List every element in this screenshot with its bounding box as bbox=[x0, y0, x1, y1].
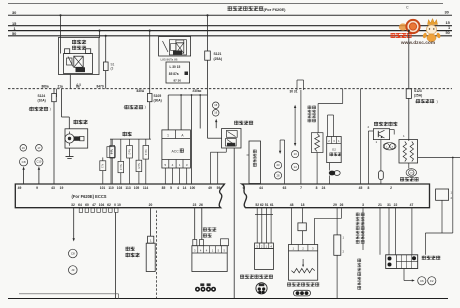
wire 30 31 bridge bbox=[296, 80, 298, 90]
svg-text:O2: O2 bbox=[332, 148, 336, 152]
svg-text:63: 63 bbox=[283, 186, 287, 190]
wire amp out through resistor bbox=[380, 140, 382, 171]
wire dashed boundary bbox=[156, 211, 158, 299]
svg-text:L 30 15: L 30 15 bbox=[170, 65, 181, 69]
svg-text:(10A): (10A) bbox=[38, 99, 46, 103]
wire pin 48 to TPS bbox=[291, 208, 293, 245]
svg-text:L85 86Ta 86: L85 86Ta 86 bbox=[161, 58, 178, 62]
svg-text:5: 5 bbox=[170, 186, 172, 190]
relay main lower box bbox=[166, 62, 190, 83]
svg-text:18: 18 bbox=[301, 203, 305, 207]
svg-text:8479: 8479 bbox=[97, 85, 104, 89]
fuse S122 bbox=[104, 62, 109, 71]
component box E1 bbox=[107, 147, 115, 158]
wire 45 drop bbox=[360, 89, 362, 184]
connector 23 bbox=[274, 162, 281, 169]
wire pin 10 to ground bus bbox=[115, 212, 117, 298]
relay fuel-pump outer box bbox=[59, 38, 100, 75]
wire arrow to connector refs bbox=[403, 269, 405, 281]
svg-text:14: 14 bbox=[183, 186, 187, 190]
wire arrow to C8 bbox=[23, 170, 25, 185]
wire ground branch bbox=[19, 293, 119, 295]
wire fuse S121 down bbox=[207, 60, 209, 95]
connector 14 bbox=[292, 163, 299, 170]
wire 1-bus drop bbox=[99, 31, 101, 38]
resistor ballast bbox=[379, 171, 384, 180]
wire relay-2 bottom bar bbox=[225, 148, 227, 152]
svg-text:10: 10 bbox=[117, 203, 121, 207]
TPS connector bbox=[294, 290, 311, 296]
label vertical heater text bbox=[308, 106, 312, 123]
wire pump ground bbox=[69, 148, 71, 156]
wire o2 to ECU pin 24 bbox=[329, 163, 331, 171]
wire relay-2 supply corner bbox=[207, 95, 209, 138]
ECU right segment bbox=[242, 184, 430, 208]
svg-text:No.4: No.4 bbox=[119, 164, 123, 170]
injector No.3 bbox=[143, 146, 149, 160]
svg-text:50: 50 bbox=[446, 30, 450, 35]
svg-text:C8: C8 bbox=[71, 252, 75, 256]
label 点火放大器 bbox=[374, 122, 397, 126]
svg-text:F2: F2 bbox=[430, 279, 434, 283]
svg-text:28: 28 bbox=[277, 173, 280, 177]
svg-text:45: 45 bbox=[359, 186, 363, 190]
svg-text:C6: C6 bbox=[420, 279, 424, 283]
wire bus 1 bbox=[8, 30, 452, 32]
relay coil bbox=[74, 56, 83, 67]
svg-text:52: 52 bbox=[255, 203, 259, 207]
svg-text:104: 104 bbox=[99, 203, 105, 207]
svg-text:62: 62 bbox=[260, 203, 264, 207]
svg-text:30 31: 30 31 bbox=[290, 89, 298, 93]
wires pins 52 62 51 61 down bbox=[256, 208, 258, 243]
svg-text:(For F620E) ECCS: (For F620E) ECCS bbox=[72, 194, 107, 199]
svg-text:13: 13 bbox=[294, 152, 297, 156]
svg-text:22: 22 bbox=[394, 203, 398, 207]
svg-text:100: 100 bbox=[190, 186, 196, 190]
wire injector feed bus bbox=[110, 138, 151, 140]
svg-text:8a: 8a bbox=[76, 85, 80, 89]
connector plug cluster bbox=[200, 283, 204, 286]
svg-text:C: C bbox=[406, 6, 409, 10]
ECU left segment bbox=[15, 184, 224, 208]
svg-text:31: 31 bbox=[387, 203, 391, 207]
injector No.4 bbox=[118, 161, 124, 172]
svg-text:6: 6 bbox=[243, 186, 245, 190]
label 燃油泵 bbox=[74, 120, 88, 124]
wire bus line top border bbox=[8, 3, 443, 5]
fuse S123 bbox=[406, 89, 411, 99]
wire 31 to ECU pin 7 bbox=[300, 90, 302, 184]
fuse S105 bbox=[147, 94, 152, 102]
svg-text:S123: S123 bbox=[414, 89, 422, 93]
svg-text:3: 3 bbox=[362, 203, 364, 207]
label coolant sensor vertical bbox=[356, 213, 360, 244]
wire bus 15 bbox=[8, 25, 452, 27]
svg-text:〉: 〉 bbox=[437, 99, 441, 104]
svg-text:N:1: N:1 bbox=[101, 164, 104, 168]
wire pin 49 up bbox=[210, 152, 212, 184]
knock sensor box bbox=[148, 236, 154, 243]
svg-text:49: 49 bbox=[208, 186, 212, 190]
svg-text:2: 2 bbox=[390, 186, 392, 190]
wire pin 20 to knock sensor bbox=[149, 208, 151, 237]
svg-text:S121: S121 bbox=[214, 52, 222, 56]
injector No.1 bbox=[110, 146, 115, 159]
wire 1-bus to fuse S105 bbox=[149, 31, 151, 94]
svg-text:17: 17 bbox=[37, 146, 40, 150]
label 诊断插头 bbox=[422, 256, 441, 260]
injector No.5 bbox=[136, 160, 142, 171]
svg-text:830A: 830A bbox=[137, 89, 145, 93]
svg-text:30: 30 bbox=[445, 10, 449, 15]
label 燃油泵继电器 bbox=[72, 40, 86, 44]
label 喷嘴 bbox=[123, 132, 132, 136]
relay main-2 box bbox=[222, 129, 241, 149]
relay main outer box bbox=[159, 37, 191, 57]
svg-text:51: 51 bbox=[265, 203, 269, 207]
label 节气门位传感器 bbox=[287, 282, 319, 286]
label 爆燃传感器 bbox=[126, 247, 135, 251]
svg-text:S105: S105 bbox=[154, 94, 162, 98]
wire 30-bus to relay bbox=[60, 15, 62, 53]
connector C6 bbox=[418, 277, 426, 285]
wire fuse S123 to coil bbox=[408, 98, 410, 139]
wire 50-bus to fuse S122 bbox=[105, 36, 107, 62]
label relay vertical 2 bbox=[357, 259, 361, 290]
svg-text:14: 14 bbox=[294, 165, 297, 169]
svg-text:(30A): (30A) bbox=[154, 99, 162, 103]
svg-text:64: 64 bbox=[78, 203, 82, 207]
wire fuse S105 to injector bus bbox=[149, 102, 151, 139]
wire bus 50 bbox=[8, 35, 452, 37]
svg-text:0: 0 bbox=[114, 203, 116, 207]
svg-text:110: 110 bbox=[108, 186, 113, 190]
svg-text:26: 26 bbox=[340, 203, 344, 207]
wire pin 18 via resistor box bbox=[302, 208, 304, 223]
svg-text:105: 105 bbox=[134, 186, 140, 190]
svg-text:(3: (3 bbox=[111, 67, 114, 71]
wire relay out through dashed to pump branch bbox=[53, 89, 55, 94]
component tall box sensor bbox=[249, 141, 261, 184]
svg-text:19: 19 bbox=[60, 186, 64, 190]
wire 30-bus to fuse S121 bbox=[207, 15, 209, 51]
wire fuse to dashed bbox=[105, 71, 107, 89]
component box N1 bbox=[100, 161, 106, 171]
TPS potentiometer bbox=[291, 268, 314, 272]
connector 19 oval bbox=[406, 169, 416, 177]
wire boxes to ECU bbox=[102, 171, 104, 184]
connector 18 oval bbox=[383, 143, 396, 150]
svg-text:114: 114 bbox=[143, 186, 148, 190]
wire 1-bus to fuse S123 bbox=[408, 31, 410, 89]
fuel pump M1 box bbox=[65, 129, 88, 148]
relay pin tabs bbox=[65, 49, 70, 54]
svg-text:No.5: No.5 bbox=[137, 163, 141, 169]
crank sensor box bbox=[255, 243, 274, 249]
svg-text:21: 21 bbox=[378, 203, 382, 207]
crank sensor round connector bbox=[256, 283, 267, 294]
wire pin 3 down bbox=[362, 208, 364, 250]
wire heater top link bbox=[318, 103, 343, 105]
air flow meter top tabs bbox=[193, 240, 197, 246]
svg-text:ACC: ACC bbox=[172, 149, 180, 153]
wire pin 26 jog to TPS bbox=[341, 208, 343, 219]
diagnostic connector block bbox=[386, 255, 418, 269]
svg-text:9: 9 bbox=[36, 186, 38, 190]
svg-text:50: 50 bbox=[12, 31, 16, 36]
svg-text:www.dzsc.com: www.dzsc.com bbox=[400, 40, 435, 46]
svg-text:44: 44 bbox=[259, 186, 263, 190]
svg-text:29: 29 bbox=[333, 203, 337, 207]
wire bus 30 bbox=[8, 14, 452, 16]
title 发动机控制系统 (For F620E) bbox=[228, 6, 264, 11]
wire amp left to ECU pin 8 bbox=[368, 130, 373, 132]
label 点火线圈 bbox=[400, 177, 419, 181]
connector 15 pair with arrow bbox=[212, 102, 219, 109]
connector 17 bbox=[36, 145, 43, 152]
connector box right of ECU bbox=[436, 189, 449, 200]
air flow meter box bbox=[192, 246, 227, 272]
svg-text:49: 49 bbox=[18, 186, 22, 190]
svg-text:No.2: No.2 bbox=[128, 149, 132, 155]
component narrow box bbox=[336, 208, 338, 235]
connector o2 plug bbox=[329, 171, 335, 176]
watermark red text bbox=[391, 33, 412, 38]
svg-text:47: 47 bbox=[410, 203, 414, 207]
svg-text:S124: S124 bbox=[38, 94, 46, 98]
wire o2 box feeds bbox=[328, 114, 334, 116]
svg-text:85: 85 bbox=[162, 186, 166, 190]
svg-text:1: 1 bbox=[167, 133, 169, 137]
wire pin 32 down arrow bbox=[73, 208, 75, 239]
label 主继电器 bbox=[234, 121, 253, 125]
wire pin 47 to diag connector bbox=[411, 208, 413, 255]
connector F2 bbox=[428, 277, 436, 285]
wires pins 23 26 to air flow meter bbox=[194, 208, 196, 240]
svg-text:32: 32 bbox=[71, 203, 75, 207]
wires pins 21 31 22 to diag connector bbox=[379, 208, 381, 255]
fuel pump motor circle bbox=[65, 134, 74, 143]
svg-text:101: 101 bbox=[100, 186, 106, 190]
svg-text:21a: 21a bbox=[58, 85, 64, 89]
connector J3 bottom bbox=[69, 266, 78, 275]
svg-text:C8: C8 bbox=[22, 160, 26, 164]
resistor heater zigzag bbox=[311, 133, 323, 153]
connector C8 bbox=[20, 158, 28, 166]
svg-text:7: 7 bbox=[300, 186, 302, 190]
svg-text:(25A): (25A) bbox=[414, 93, 422, 97]
wire relay output bbox=[69, 75, 71, 89]
svg-text:60: 60 bbox=[85, 203, 89, 207]
wire heater to ECU pin 8 bbox=[316, 153, 318, 185]
svg-text:30: 30 bbox=[12, 10, 16, 15]
svg-text:J3: J3 bbox=[71, 268, 75, 272]
wire relay-2 to bottom bbox=[233, 148, 235, 299]
connector row below ECU bbox=[79, 208, 82, 212]
svg-text:113: 113 bbox=[125, 186, 130, 190]
svg-text:47: 47 bbox=[92, 203, 96, 207]
connector 16 bbox=[20, 145, 27, 152]
svg-text:103: 103 bbox=[117, 186, 123, 190]
svg-text:C10: C10 bbox=[37, 160, 42, 164]
svg-text:20: 20 bbox=[149, 203, 153, 207]
svg-text:〉: 〉 bbox=[50, 107, 54, 112]
wire coil right loop bbox=[418, 157, 460, 159]
svg-text:8: 8 bbox=[316, 186, 318, 190]
relay fuel-pump inner box bbox=[64, 54, 93, 74]
svg-text:24: 24 bbox=[322, 186, 326, 190]
svg-text:4: 4 bbox=[177, 186, 179, 190]
sensor O2 box bbox=[327, 137, 342, 163]
svg-text:#30ac: #30ac bbox=[193, 89, 202, 93]
svg-text:59: 59 bbox=[217, 186, 221, 190]
svg-text:16: 16 bbox=[22, 146, 25, 150]
valve ACC box bbox=[162, 130, 191, 168]
wire double arrow bbox=[294, 108, 296, 144]
svg-text:(For F620E): (For F620E) bbox=[264, 7, 287, 12]
svg-text:61: 61 bbox=[270, 203, 274, 207]
watermark mascot bbox=[428, 19, 438, 25]
svg-text:48: 48 bbox=[290, 203, 294, 207]
TPS box bbox=[289, 245, 318, 281]
svg-text:62: 62 bbox=[107, 203, 111, 207]
wire jog to fuel pump bbox=[61, 89, 63, 117]
relay contact bbox=[68, 57, 73, 67]
connector 13 bbox=[292, 151, 299, 158]
svg-text:No.3: No.3 bbox=[144, 150, 148, 156]
wire 30ac feed bus bbox=[168, 94, 207, 96]
wire dashed separator line bbox=[8, 88, 452, 90]
watermark logo circle bbox=[399, 23, 407, 30]
wire arrow to C10 bbox=[38, 170, 40, 185]
svg-text:23: 23 bbox=[193, 203, 197, 207]
wire ground bus bbox=[8, 298, 448, 300]
injector No.2 bbox=[127, 146, 133, 159]
wire S124 down to ECU pin 43 bbox=[53, 102, 55, 184]
amplifier box Q1 bbox=[373, 129, 389, 140]
valve ACC pin row bbox=[162, 159, 191, 161]
svg-text:43: 43 bbox=[51, 186, 55, 190]
fuse S124 bbox=[52, 94, 57, 102]
fuse S121 bbox=[205, 51, 211, 60]
svg-text:〉: 〉 bbox=[145, 105, 149, 110]
svg-text:87 30: 87 30 bbox=[174, 79, 182, 83]
svg-text:860a: 860a bbox=[42, 85, 49, 89]
svg-text:(25A): (25A) bbox=[214, 57, 222, 61]
wire pin 19 drop bbox=[56, 89, 58, 97]
wire amp right hook bbox=[390, 129, 395, 131]
svg-text:23: 23 bbox=[277, 163, 280, 167]
wire U-link with down arrow bbox=[279, 140, 281, 151]
connector 28 bbox=[274, 172, 281, 179]
label 空气流量计 bbox=[203, 227, 217, 231]
label 曲轴位置传感器 bbox=[240, 275, 273, 279]
svg-text:8: 8 bbox=[367, 186, 369, 190]
wire pin 59 up bbox=[217, 152, 219, 184]
connector C10 bbox=[35, 158, 43, 166]
svg-text:26: 26 bbox=[199, 203, 203, 207]
svg-text:85 87a: 85 87a bbox=[169, 72, 179, 76]
wires ACC to ECU bbox=[164, 168, 166, 184]
connector C8 bottom bbox=[69, 249, 78, 258]
